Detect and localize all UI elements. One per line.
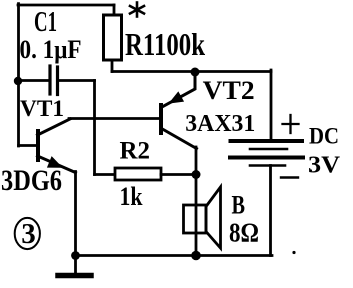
resistor R1 body <box>104 15 122 60</box>
battery minus sign <box>281 176 298 178</box>
ground bar <box>58 273 91 279</box>
transistor VT2 collector <box>162 129 197 149</box>
svg-text:3: 3 <box>21 218 36 250</box>
capacitor C1 left lead <box>19 79 49 82</box>
battery plus sign <box>283 115 299 133</box>
transistor VT1 emitter <box>38 156 76 173</box>
transistor VT1 emitter arrow <box>48 158 61 167</box>
svg-text:DC: DC <box>309 124 339 149</box>
transistor VT2 emitter <box>162 73 195 108</box>
battery plate long <box>230 156 303 160</box>
transistor VT1 base bar <box>36 131 40 160</box>
wire VT1 emitter down <box>74 172 77 257</box>
speaker B coil box <box>184 205 207 233</box>
battery plate short <box>250 148 287 151</box>
capacitor C1 plates <box>50 66 58 95</box>
svg-text:0. 1μF: 0. 1μF <box>20 34 82 64</box>
wire VT1 base lead <box>19 144 37 147</box>
transistor VT2 base bar <box>159 105 163 133</box>
wire C1 down to R2 <box>93 81 96 175</box>
svg-text:3V: 3V <box>308 152 340 179</box>
ground stem <box>74 256 77 274</box>
svg-text:R2: R2 <box>120 136 151 165</box>
node junction C1 to left frame <box>14 77 22 85</box>
svg-text:8Ω: 8Ω <box>229 217 259 248</box>
battery plate long top <box>231 139 303 143</box>
wire battery to bottom rail <box>269 166 272 256</box>
capacitor C1 right lead <box>59 79 95 82</box>
label R1 value asterisk <box>130 3 144 17</box>
wire right rail to battery <box>270 70 273 140</box>
resistor R2 body <box>115 168 161 180</box>
svg-text:VT2: VT2 <box>203 76 255 105</box>
node junction emitter to ground rail <box>71 251 80 260</box>
node junction speaker to ground wire <box>191 251 201 261</box>
wire left frame <box>17 4 20 146</box>
wire R1 top lead <box>113 5 116 15</box>
scan speck lower right <box>292 251 295 254</box>
svg-text:VT1: VT1 <box>20 96 64 122</box>
transistor VT1 collector <box>38 119 71 135</box>
svg-text:3AX31: 3AX31 <box>185 110 255 137</box>
wire VT2 collector down <box>195 147 198 175</box>
svg-text:B: B <box>232 190 246 220</box>
svg-text:R1100k: R1100k <box>125 27 205 62</box>
transistor VT2 emitter arrow <box>170 93 183 103</box>
svg-text:1k: 1k <box>120 182 143 211</box>
wire R2 left lead <box>95 173 116 176</box>
speaker B cone <box>206 187 221 248</box>
wire top frame <box>18 4 114 7</box>
wire R1 bottom lead <box>111 60 114 72</box>
svg-text:3DG6: 3DG6 <box>1 165 62 197</box>
wire supply rail top <box>112 70 271 73</box>
scan speck near minus sign <box>310 169 312 171</box>
wire speaker vertical <box>195 175 198 257</box>
wire VT1 collector to VT2 base <box>69 117 160 120</box>
node junction VT2 emitter on rail <box>191 68 200 77</box>
figure number circled 3 <box>15 218 40 250</box>
wire bottom ground rail <box>76 254 273 257</box>
node junction R2/collector/speaker <box>192 170 201 179</box>
battery plate short bottom <box>250 164 285 167</box>
wire R2 right lead <box>161 173 196 176</box>
